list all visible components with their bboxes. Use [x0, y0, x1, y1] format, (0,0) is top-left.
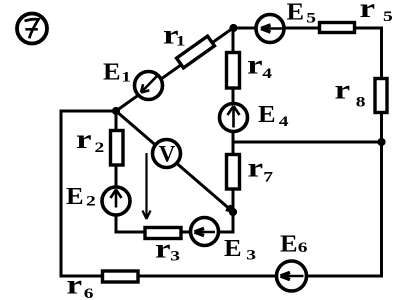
resistor r3 [145, 228, 181, 239]
svg-text:6: 6 [298, 239, 308, 255]
svg-text:r: r [360, 0, 376, 23]
wire top row B to top-right corner [233, 27, 382, 30]
wire middle vertical B down [232, 28, 235, 232]
svg-text:6: 6 [84, 285, 94, 300]
wire left edge [60, 111, 63, 276]
svg-text:1: 1 [121, 69, 131, 85]
source E6 [277, 261, 307, 291]
wire diagonal A to B [116, 28, 233, 111]
svg-text:r: r [335, 74, 351, 104]
source E2 [102, 187, 130, 215]
svg-text:E: E [103, 60, 121, 86]
svg-text:r: r [67, 269, 83, 299]
resistor r2 [111, 131, 124, 166]
wire node D horizontal [233, 141, 381, 144]
wire node A to left edge [61, 110, 116, 113]
svg-text:8: 8 [356, 94, 366, 110]
node A junction dot [112, 107, 120, 115]
svg-text:5: 5 [306, 10, 316, 26]
wire E2 branch vertical [115, 111, 118, 232]
resistor r1 [177, 36, 215, 68]
arrowhead on diagonal at node C [226, 205, 233, 211]
svg-text:1: 1 [176, 33, 186, 49]
svg-text:2: 2 [86, 193, 96, 209]
svg-text:V: V [159, 142, 176, 167]
resistor r7 [227, 155, 240, 190]
wire right edge [380, 28, 383, 276]
svg-text:3: 3 [246, 247, 256, 263]
node C junction dot [229, 208, 237, 216]
voltmeter V [153, 140, 181, 168]
svg-text:r: r [155, 233, 171, 263]
resistor r5 [320, 23, 355, 33]
circled figure number 7 [17, 14, 47, 44]
svg-text:E: E [287, 0, 305, 25]
svg-text:4: 4 [262, 65, 272, 81]
node B junction dot [229, 24, 237, 32]
svg-text:r: r [248, 152, 264, 182]
node D junction dot [377, 138, 385, 146]
wire bottom middle row [116, 231, 233, 234]
svg-text:3: 3 [170, 248, 180, 264]
current arrow (vertical, pointing down) [143, 153, 151, 219]
svg-text:4: 4 [279, 113, 289, 129]
resistor r8 [375, 79, 387, 113]
svg-text:E: E [280, 232, 298, 258]
svg-text:7: 7 [263, 169, 273, 185]
svg-text:E: E [258, 102, 276, 128]
wire bottom row [61, 275, 382, 278]
resistor r4 [227, 53, 240, 89]
source E4 [220, 104, 248, 132]
source E1 [135, 72, 163, 100]
svg-text:E: E [66, 184, 84, 210]
svg-text:E: E [224, 236, 242, 262]
source E3 [191, 218, 219, 246]
wire diagonal A to C (voltmeter branch) [116, 111, 232, 211]
source E5 [256, 15, 284, 43]
svg-text:r: r [76, 124, 92, 154]
svg-text:r: r [247, 49, 263, 79]
svg-text:5: 5 [383, 8, 393, 24]
svg-text:2: 2 [95, 139, 105, 155]
resistor r6 [103, 271, 139, 282]
